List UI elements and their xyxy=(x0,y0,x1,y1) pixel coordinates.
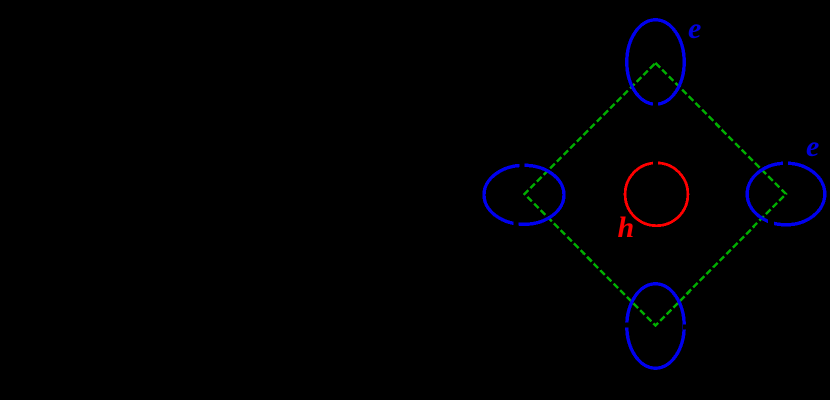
notch on right electron pocket (top center) xyxy=(783,161,788,166)
svg-text:h: h xyxy=(618,211,635,244)
electron pocket right (blue ellipse) xyxy=(747,163,825,225)
notch on top electron pocket (bottom center) xyxy=(653,102,658,108)
notch on bottom electron pocket (right middle) xyxy=(683,325,689,330)
electron pocket top (blue ellipse) xyxy=(627,20,684,104)
notch on left electron pocket (top center) xyxy=(520,163,525,169)
hole pocket (red circle) xyxy=(625,163,688,226)
notch on bottom electron pocket (left middle) xyxy=(625,323,631,328)
notch on left electron pocket (bottom center) xyxy=(514,221,519,227)
notch on right electron pocket (bottom left) xyxy=(768,220,774,226)
electron pocket left (blue ellipse) xyxy=(484,165,564,224)
svg-text:e: e xyxy=(688,12,701,45)
svg-text:e: e xyxy=(806,130,819,163)
Brillouin zone boundary (green dashed diamond) xyxy=(525,63,787,326)
notch on hole pocket (top center) xyxy=(653,160,658,165)
electron pocket bottom (blue ellipse) xyxy=(627,284,684,368)
